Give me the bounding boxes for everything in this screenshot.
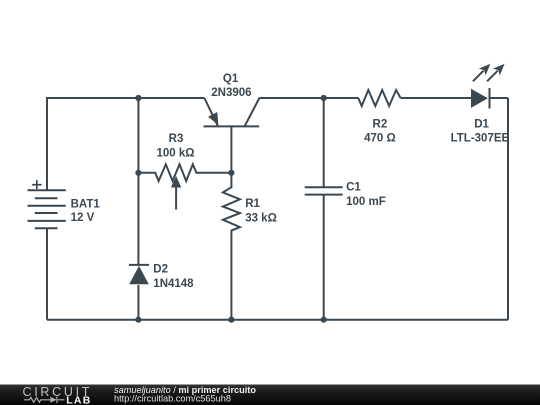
label R2 value [364,119,396,145]
label Q1 value [211,73,251,99]
resistor R2 [358,90,400,106]
svg-text:LTL-307EE: LTL-307EE [451,133,510,145]
wire right rail [507,98,509,320]
svg-text:1N4148: 1N4148 [153,278,194,290]
svg-text:http://circuitlab.com/c565uh8: http://circuitlab.com/c565uh8 [114,394,231,404]
node bottom D2 junction [135,317,141,323]
svg-text:2N3906: 2N3906 [211,87,251,99]
diode D2 [129,265,149,284]
logo squiggle wire [24,397,65,403]
label R1 value [245,198,277,225]
wire D1 to right corner [490,97,509,99]
resistor R1 [223,173,240,320]
node bottom C1 junction [321,317,327,323]
wire top rail left [47,98,204,191]
D1 emission arrow 1 [473,64,490,81]
svg-text:470 Ω: 470 Ω [364,133,396,145]
LED D1 [471,88,490,109]
svg-text:12 V: 12 V [71,212,95,224]
svg-text:C1: C1 [346,182,361,194]
R3 wiper arrowhead [171,176,181,188]
wire branch x=138 upper [137,98,139,173]
svg-text:33 kΩ: 33 kΩ [245,212,277,224]
Q1 emitter arrowhead [208,112,218,125]
svg-text:100 kΩ: 100 kΩ [157,148,195,160]
label C1 value [346,182,386,208]
potentiometer R3 [138,164,231,209]
footer bar [0,385,540,405]
label D1 value [451,119,510,145]
label BAT1 value [71,198,101,224]
node top-left branch junction [135,95,141,101]
wire left rail bottom [46,228,48,320]
node R3 left junction [135,170,141,176]
D1 emission arrow 2 [487,64,504,81]
battery BAT1 [28,180,66,228]
wire bottom rail [47,319,508,321]
capacitor C1 [305,98,343,320]
svg-text:100 mF: 100 mF [346,196,386,208]
node top C1 junction [321,95,327,101]
wire branch x=138 lower (D2 to bottom) [137,285,139,320]
svg-text:LAB: LAB [66,394,91,405]
svg-text:BAT1: BAT1 [71,198,101,210]
svg-text:R1: R1 [245,198,260,210]
svg-text:Q1: Q1 [223,73,239,85]
wire R2 to D1 [401,97,471,99]
transistor Q1 [204,98,260,173]
label D2 value [153,264,194,291]
label R3 value [157,133,195,160]
wire collector rail to R2 [259,97,358,99]
svg-text:D1: D1 [474,119,489,131]
svg-text:R3: R3 [169,133,184,145]
node R3 right junction [228,170,234,176]
wire branch x=138 middle (to D2) [137,173,139,265]
svg-text:R2: R2 [373,119,388,131]
node bottom R1 junction [228,317,234,323]
svg-text:D2: D2 [153,264,168,276]
logo diode triangle [50,397,56,403]
